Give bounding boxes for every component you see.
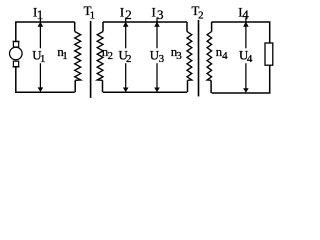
- svg-text:2: 2: [198, 10, 204, 22]
- svg-text:1: 1: [90, 10, 96, 22]
- svg-text:3: 3: [159, 53, 165, 65]
- svg-text:4: 4: [222, 50, 228, 62]
- svg-text:3: 3: [157, 7, 164, 22]
- svg-text:2: 2: [126, 53, 132, 65]
- svg-text:I: I: [120, 5, 124, 19]
- svg-text:1: 1: [40, 53, 46, 65]
- svg-text:2: 2: [108, 50, 114, 62]
- svg-text:1: 1: [37, 7, 44, 22]
- svg-text:3: 3: [176, 50, 182, 62]
- svg-text:4: 4: [242, 7, 249, 22]
- svg-text:1: 1: [62, 50, 67, 62]
- svg-text:I: I: [152, 5, 156, 19]
- svg-text:4: 4: [247, 53, 253, 65]
- svg-text:2: 2: [125, 7, 132, 22]
